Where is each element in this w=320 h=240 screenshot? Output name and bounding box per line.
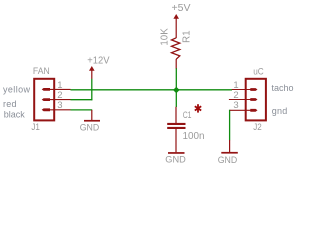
wire GND net J1.3 horizontal: [71, 109, 93, 111]
svg-text:10K: 10K: [159, 28, 170, 46]
asterisk marker: [195, 104, 201, 112]
svg-text:tacho: tacho: [272, 83, 294, 93]
svg-text:uC: uC: [253, 66, 264, 77]
wire junction to C1 vertical: [175, 90, 177, 107]
svg-text:FAN: FAN: [33, 66, 50, 77]
svg-text:yellow: yellow: [3, 84, 31, 94]
svg-text:GND: GND: [165, 155, 186, 166]
J1 pin 1: [50, 88, 71, 90]
svg-text:C1: C1: [183, 110, 192, 121]
capacitor C1: [175, 107, 177, 123]
svg-text:black: black: [4, 109, 26, 119]
svg-text:J1: J1: [31, 122, 40, 132]
J1 pin 2: [50, 99, 71, 101]
svg-text:+12V: +12V: [87, 56, 110, 67]
wire R1 to junction vertical: [175, 68, 177, 90]
svg-text:+5V: +5V: [172, 3, 191, 14]
svg-text:gnd: gnd: [272, 106, 288, 116]
svg-text:3: 3: [233, 100, 238, 111]
wire J2.3 to ground vertical: [229, 110, 231, 141]
svg-text:GND: GND: [80, 123, 100, 134]
svg-text:GND: GND: [218, 155, 238, 166]
svg-text:J2: J2: [253, 122, 262, 132]
J2 pin 2: [229, 99, 251, 101]
wire tacho net J1.1 to J2.1: [71, 89, 233, 91]
wire +12V net vertical riser: [91, 79, 93, 101]
ground GND2 symbol under J2: [229, 140, 231, 152]
svg-text:red: red: [3, 99, 17, 109]
ground GND3 symbol under C1: [168, 152, 185, 154]
J2 pin 1: [232, 89, 251, 91]
J2 pin 3: [230, 109, 251, 111]
supply +12V arrow: [89, 66, 95, 71]
ground GND1 symbol: [91, 110, 93, 120]
resistor R1: [172, 38, 180, 59]
supply +5V arrow: [173, 14, 179, 19]
svg-text:R1: R1: [181, 30, 192, 43]
J1 pin 3: [50, 109, 71, 111]
svg-text:3: 3: [57, 100, 62, 111]
connector J2 box: [246, 79, 266, 121]
wire +12V net J1.2 horizontal: [71, 99, 93, 101]
svg-text:100n: 100n: [183, 131, 205, 142]
connector J1 box: [34, 79, 54, 121]
junction dot: [173, 87, 180, 94]
